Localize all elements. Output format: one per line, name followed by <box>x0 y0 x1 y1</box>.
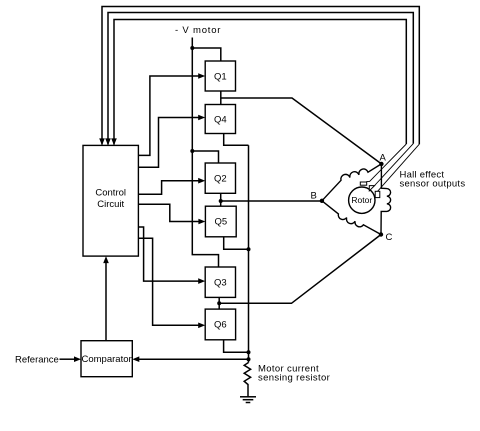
transistor Q3 <box>205 267 235 297</box>
arrow hall line 3 into control <box>111 138 117 145</box>
wire resistor to ground <box>247 387 249 397</box>
node current sense bus (right vertical) <box>248 145 250 362</box>
wire control output 2 to Q4 gate <box>138 118 199 168</box>
junction -V bus to Q2 <box>190 149 194 153</box>
svg-text:sensor outputs: sensor outputs <box>400 179 466 190</box>
svg-text:- V motor: - V motor <box>175 25 221 36</box>
transistor Q1 <box>205 61 235 91</box>
hall sensor element 3 <box>375 191 380 197</box>
svg-text:C: C <box>386 232 393 243</box>
wire Q2 bottom to Q5 top (phase B node) <box>220 193 222 206</box>
wire Q4 bottom to sense bus <box>224 134 249 146</box>
wire hall sensor lead inner (thin diagonal) <box>367 144 407 181</box>
wire control output 6 to Q6 gate <box>138 238 199 325</box>
arrow into Q3 <box>198 278 205 284</box>
arrow into Q4 <box>198 115 205 121</box>
wire Q5 bottom to sense bus <box>224 237 249 250</box>
svg-text:A: A <box>380 153 387 164</box>
ground <box>240 397 256 403</box>
wire phase C to motor terminal C <box>219 235 381 304</box>
wire control output 4 to Q5 gate <box>138 204 199 221</box>
wire comparator output to control circuit <box>105 262 107 341</box>
svg-text:Control: Control <box>95 188 126 199</box>
wire hall sensor feedback middle <box>108 13 413 145</box>
motor winding A-B (with coil bumps) <box>322 164 382 201</box>
arrow comparator output into control <box>103 256 109 263</box>
arrow into Q5 <box>198 219 205 225</box>
arrow hall line 2 into control <box>105 138 111 145</box>
wire phase B to motor terminal B <box>221 200 322 202</box>
transistor Q5 <box>205 206 236 237</box>
wire -V to Q2 top <box>192 151 218 163</box>
wire Q3 bottom to Q6 top (phase C node) <box>218 297 220 309</box>
label Hall effect sensor outputs <box>400 170 466 190</box>
wire Q1 bottom to Q4 top (phase A node) <box>220 91 222 105</box>
arrow into Q1 <box>198 73 205 79</box>
comparator U2 <box>81 341 132 377</box>
transistor Q2 <box>205 163 235 193</box>
svg-text:Q2: Q2 <box>214 174 227 185</box>
resistor R1 motor current sensing <box>244 363 250 388</box>
control circuit U1 <box>83 145 138 256</box>
arrow into Q6 <box>198 323 205 329</box>
node B terminal <box>320 199 324 203</box>
junction -V bus to Q1 <box>190 46 194 50</box>
node C terminal <box>379 232 383 236</box>
svg-text:Q6: Q6 <box>214 320 227 331</box>
rotor <box>349 187 375 213</box>
wire -V to Q1 top <box>192 48 221 61</box>
transistor Q6 <box>205 309 235 340</box>
svg-text:sensing resistor: sensing resistor <box>258 373 330 384</box>
node A terminal <box>379 162 383 166</box>
svg-text:Circuit: Circuit <box>97 199 124 210</box>
svg-text:Comparator: Comparator <box>82 354 132 365</box>
wire control output 1 to Q1 gate <box>138 76 199 155</box>
svg-text:Q3: Q3 <box>214 277 227 288</box>
wire Q6 bottom to sense bus <box>224 340 249 353</box>
arrow sense into comparator <box>132 356 139 362</box>
arrow hall line 1 into control <box>99 138 105 145</box>
transistor Q4 <box>205 105 235 134</box>
wire hall sensor feedback outer <box>102 7 419 145</box>
svg-text:Rotor: Rotor <box>351 195 372 205</box>
wire reference input to comparator <box>60 358 76 360</box>
svg-text:Q4: Q4 <box>214 114 227 125</box>
junction Q5 to sense bus <box>247 247 251 251</box>
label Motor current sensing resistor <box>258 364 330 384</box>
wire phase A to motor terminal A <box>221 98 382 164</box>
wire hall sensor feedback inner <box>114 20 406 145</box>
junction phase B tap <box>219 199 223 203</box>
junction phase C tap <box>217 301 221 305</box>
wire hall sensor lead outer (thin diagonal) <box>378 144 420 191</box>
svg-text:Q1: Q1 <box>214 71 227 82</box>
wire control output 3 to Q2 gate <box>138 181 199 195</box>
node -V motor supply bus (left vertical) <box>192 38 218 268</box>
arrow reference into comparator <box>74 356 81 362</box>
svg-text:Q5: Q5 <box>214 217 227 228</box>
hall sensor element 1 <box>360 182 366 185</box>
motor winding B-C (with coil bumps) <box>322 201 381 235</box>
hall sensor element 2 <box>369 186 374 191</box>
motor winding A-C (with coil bumps) <box>381 164 391 235</box>
wire control output 5 to Q3 gate <box>138 227 199 281</box>
svg-text:Referance: Referance <box>15 355 59 366</box>
svg-text:B: B <box>311 191 317 202</box>
junction sense bus to comparator <box>247 357 251 361</box>
arrow into Q2 <box>198 178 205 184</box>
wire hall sensor lead middle (thin diagonal) <box>375 144 414 186</box>
wire sense bus to comparator input <box>139 358 249 360</box>
junction Q6 to sense bus <box>247 350 251 354</box>
